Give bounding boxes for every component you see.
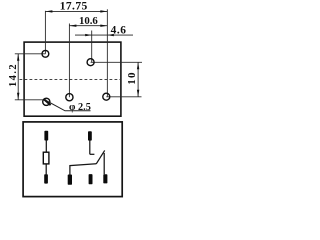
centerline (dashed) — [20, 78, 121, 80]
contact pin 3 (top, NC fixed) — [88, 131, 92, 140]
wire common down to pin 6 — [103, 153, 105, 174]
svg-text:10: 10 — [126, 71, 138, 84]
hole H1 top-left — [42, 50, 49, 57]
extension line horizontal from hole H2 — [91, 61, 142, 63]
hole H4 bottom-middle — [66, 94, 73, 101]
fixed contact hook — [90, 153, 95, 155]
leader line for hole diameter 2.5 — [44, 100, 90, 111]
svg-text:φ 2.5: φ 2.5 — [69, 102, 91, 113]
coil pin 2 (bottom) — [44, 174, 48, 183]
wire coil top — [45, 140, 47, 152]
wire from pin 3 down — [89, 140, 91, 154]
dimension line 10 (right) — [137, 62, 139, 97]
wire coil bottom — [45, 164, 47, 175]
svg-text:17.75: 17.75 — [60, 1, 88, 13]
leader slash through hole H3 — [44, 99, 51, 105]
coil pin 1 (top) — [44, 131, 48, 141]
extension line horizontal from hole H1 — [15, 53, 46, 55]
hole H3 bottom-left — [43, 98, 50, 105]
wire from pin 4 up and right — [70, 164, 96, 175]
contact pin 5 (bottom middle, unconnected stub) — [89, 174, 93, 184]
svg-text:4.6: 4.6 — [111, 24, 127, 36]
extension line vertical from hole H5 — [106, 9, 108, 96]
contact pin 4 (bottom left) — [68, 175, 72, 185]
extension line horizontal from hole H5 — [106, 96, 141, 98]
dimension line 4.6 (arrows outside) — [75, 34, 133, 36]
schematic box — [23, 122, 122, 197]
hole H5 bottom-right — [103, 93, 110, 100]
dimension line 14.2 — [17, 54, 19, 100]
dimension line 10.6 — [69, 25, 107, 27]
svg-text:14.2: 14.2 — [8, 63, 19, 87]
extension line horizontal from hole H3 — [15, 99, 47, 101]
svg-text:10.6: 10.6 — [79, 15, 98, 27]
extension line vertical from hole H4 — [68, 24, 70, 98]
extension line vertical from hole H2 — [91, 31, 93, 63]
coil winding K — [43, 152, 49, 164]
contact pin 6 (bottom right, common) — [103, 174, 107, 183]
relay outline (PCB footprint rectangle) — [24, 42, 121, 116]
dimension line 17.75 — [45, 10, 107, 12]
hole H2 top-right — [87, 59, 94, 66]
movable contact arm — [96, 150, 105, 164]
extension line vertical from hole H1 — [44, 11, 46, 54]
